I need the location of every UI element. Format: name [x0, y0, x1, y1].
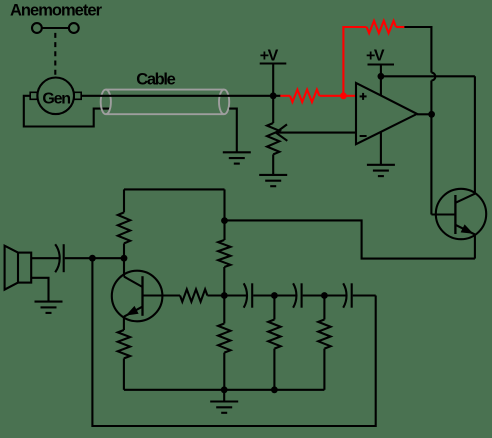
svg-text:Anemometer: Anemometer: [10, 2, 103, 20]
svg-text:Gen: Gen: [42, 91, 71, 108]
svg-text:+V: +V: [260, 47, 279, 64]
svg-text:Cable: Cable: [136, 70, 176, 88]
svg-text:+V: +V: [366, 48, 385, 65]
